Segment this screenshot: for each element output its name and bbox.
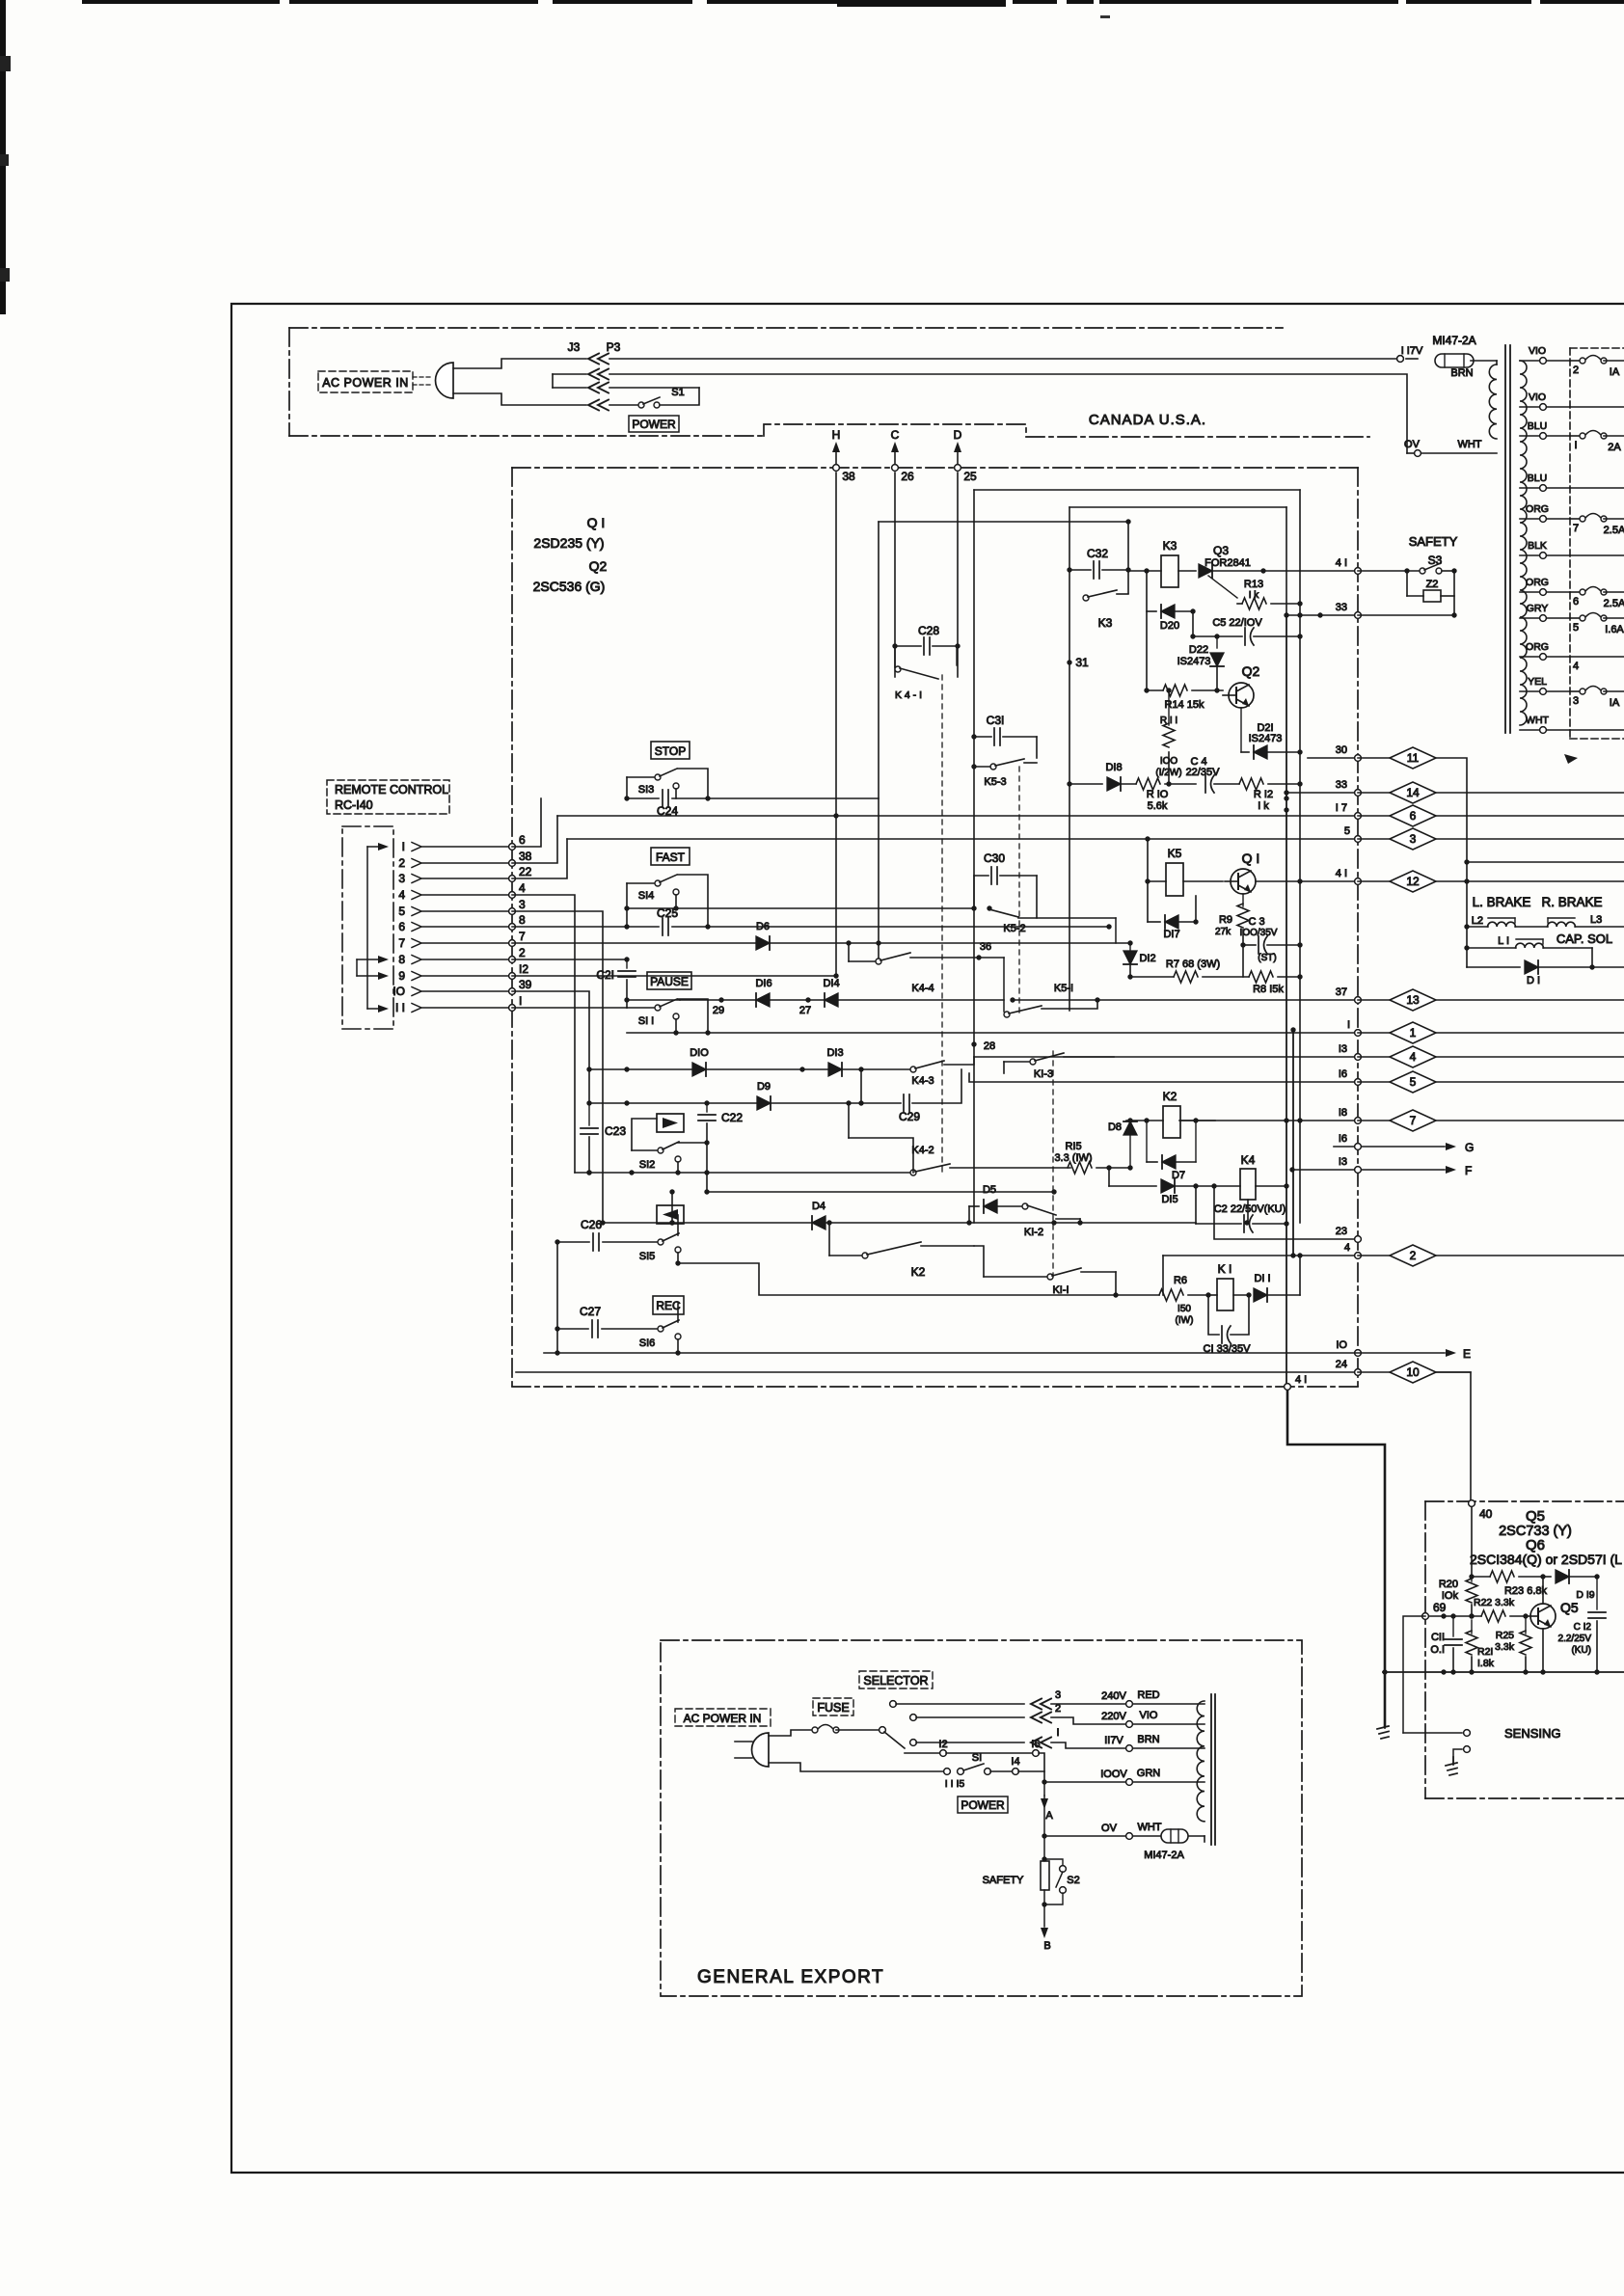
wire exit 4 row (1163, 1242, 1361, 1258)
svg-text:5: 5 (1573, 622, 1579, 634)
svg-text:R I2: R I2 (1254, 789, 1273, 800)
mech link K1 dashed (1052, 1051, 1054, 1277)
svg-text:REC: REC (656, 1299, 681, 1312)
wire 28 node (971, 1040, 995, 1052)
REMOTE CONTROL label box (327, 780, 449, 814)
wire row2 long (609, 374, 1407, 453)
svg-text:IA: IA (1610, 697, 1620, 709)
svg-text:K5-I: K5-I (1054, 983, 1073, 994)
transformer tap ORG 4 (1520, 641, 1624, 672)
inner box A border (974, 490, 1300, 1223)
transformer tap VIO (1520, 392, 1624, 410)
svg-text:F: F (1465, 1164, 1472, 1177)
capacitor C3 100/35V (1240, 916, 1303, 963)
wire bus 13-F (1289, 1156, 1472, 1177)
wire sensing feed (1403, 1616, 1462, 1733)
capacitor C23 (581, 1103, 626, 1175)
resistor R11 100 1/2W (1155, 688, 1181, 786)
Q5 unit dash-dot box (1425, 1501, 1624, 1798)
wire bus 37 exit (1010, 986, 1361, 1003)
svg-text:2SD235 (Y): 2SD235 (Y) (533, 535, 604, 551)
inductor L1 (1467, 935, 1592, 967)
node H arrow (832, 428, 841, 468)
svg-text:2: 2 (1410, 1249, 1417, 1262)
node 40 (1469, 1500, 1493, 1521)
connector chevrons row3 (588, 383, 609, 393)
svg-text:C26: C26 (581, 1218, 602, 1231)
svg-text:ORG: ORG (1526, 641, 1549, 653)
relay coil K5 (1145, 847, 1223, 896)
svg-text:(IW): (IW) (1176, 1315, 1194, 1326)
svg-text:1: 1 (1410, 1026, 1417, 1040)
svg-text:CII: CII (1431, 1632, 1445, 1643)
switch S12 (632, 1119, 707, 1173)
schematic outer border frame (231, 304, 1624, 2173)
svg-text:D5: D5 (983, 1184, 996, 1196)
svg-text:C30: C30 (984, 851, 1005, 865)
svg-text:SI3: SI3 (638, 784, 655, 796)
transformer T2 winding (1197, 1701, 1204, 1842)
svg-text:IS2473: IS2473 (1177, 656, 1211, 667)
label AC POWER IN (export) (675, 1709, 771, 1726)
wire col 697 (669, 1189, 674, 1225)
svg-text:12: 12 (1406, 875, 1420, 888)
svg-text:6: 6 (398, 920, 405, 933)
wire pin10 drop (512, 991, 592, 1106)
remote pin 5 wire (398, 898, 526, 918)
connector diamond 5 (1358, 1071, 1624, 1093)
svg-text:I6: I6 (1031, 1739, 1040, 1750)
connector diamond 2 (1358, 1245, 1624, 1266)
svg-text:K4-3: K4-3 (911, 1075, 934, 1087)
thyristor Q3 FOR2841 (1199, 544, 1300, 598)
svg-text:AC POWER IN: AC POWER IN (684, 1712, 762, 1725)
svg-text:3: 3 (398, 872, 405, 885)
transformer tap BLK (1520, 540, 1624, 558)
svg-text:2.5A: 2.5A (1604, 525, 1624, 536)
diode D17 (1148, 896, 1199, 940)
svg-text:MI47-2A: MI47-2A (1144, 1850, 1184, 1861)
svg-text:30: 30 (1336, 744, 1347, 756)
svg-text:FUSE: FUSE (817, 1701, 849, 1715)
diode D1 (1467, 960, 1624, 986)
svg-text:R23 6.8k: R23 6.8k (1504, 1585, 1548, 1597)
svg-text:29: 29 (713, 1005, 724, 1016)
svg-text:STOP: STOP (655, 744, 686, 758)
wire row 1109 (589, 1067, 911, 1071)
capacitor C12 2.2/25V (1558, 1577, 1606, 1672)
svg-text:I8: I8 (1339, 1107, 1347, 1119)
svg-text:K2: K2 (911, 1265, 926, 1279)
diode D20 (1147, 605, 1193, 632)
connector diamond 11 (1358, 747, 1436, 769)
wire H column (833, 473, 838, 979)
svg-text:C27: C27 (580, 1305, 601, 1318)
svg-text:I2: I2 (938, 1739, 947, 1750)
diode D11 (1254, 1256, 1300, 1302)
svg-text:2SCI384(Q) or 2SD57I (L: 2SCI384(Q) or 2SD57I (L (1470, 1552, 1622, 1567)
svg-text:E: E (1463, 1347, 1471, 1361)
svg-text:24: 24 (1336, 1359, 1347, 1370)
svg-text:Q2: Q2 (1242, 663, 1260, 679)
svg-text:C29: C29 (899, 1110, 920, 1123)
svg-text:22/35V: 22/35V (1186, 767, 1221, 778)
label FAST box (651, 848, 690, 865)
transformer tap ORG 7 (1520, 503, 1624, 536)
wire 41 exit top (1300, 557, 1361, 574)
label SELECTOR box (859, 1671, 933, 1688)
diode D6 (756, 921, 770, 950)
svg-text:B: B (1043, 1940, 1050, 1952)
wire bus 30 exit (1308, 744, 1361, 761)
wire exit 23 (1214, 1186, 1361, 1242)
svg-text:SI4: SI4 (638, 890, 655, 902)
label GENERAL EXPORT (697, 1967, 884, 1987)
switch S1 (power, top) (609, 387, 699, 408)
svg-text:DI4: DI4 (823, 978, 839, 989)
svg-text:I4: I4 (1011, 1756, 1019, 1768)
node D arrow (954, 428, 962, 468)
capacitor C29 (899, 1069, 961, 1123)
wire row 100V (1044, 1768, 1204, 1785)
svg-text:D I9: D I9 (1576, 1589, 1594, 1601)
svg-text:Q3: Q3 (1213, 544, 1229, 557)
svg-text:I3: I3 (1339, 1043, 1347, 1055)
diode D10 (690, 1047, 709, 1076)
wire K4-2 feed (846, 1100, 913, 1173)
wire pin9 to H col (512, 975, 836, 977)
wire row 1236 (704, 1189, 1056, 1194)
capacitor C25 (624, 906, 710, 935)
connector J3-P3 labels (568, 340, 621, 354)
svg-text:K4-2: K4-2 (911, 1145, 934, 1156)
svg-text:11: 11 (1407, 751, 1420, 765)
connector chevrons row2 (588, 369, 609, 380)
wire col 733b (706, 1143, 708, 1192)
remote pin 9 wire (398, 962, 528, 983)
svg-text:I k: I k (1258, 800, 1269, 812)
label R.BRAKE (1541, 895, 1602, 909)
connector diamond 14 (1358, 782, 1624, 803)
switch S16 (639, 1304, 681, 1353)
remote pin 1 wire (402, 833, 526, 853)
svg-text:RED: RED (1137, 1689, 1159, 1701)
resistor R22 3.3k (1429, 1597, 1529, 1622)
svg-text:OV: OV (1404, 439, 1421, 450)
wire bus 33 exit (1284, 779, 1361, 796)
wire bus 1 exit (627, 1019, 1361, 1036)
svg-text:K3: K3 (1163, 539, 1177, 553)
selector row 117V (910, 1727, 1204, 1751)
svg-text:D22: D22 (1189, 644, 1208, 656)
wire pin8 to pause (512, 957, 630, 961)
switch S1 (export) (769, 1752, 1047, 1790)
svg-text:POWER: POWER (961, 1798, 1005, 1812)
node 26 (892, 465, 914, 483)
svg-text:37: 37 (1336, 986, 1347, 998)
transformer tap VIO 2 (1520, 345, 1624, 378)
svg-text:WHT: WHT (1457, 439, 1481, 450)
svg-text:7: 7 (398, 936, 405, 950)
label SAFETY top (1409, 534, 1458, 549)
svg-text:13: 13 (1406, 993, 1420, 1007)
svg-text:ORG: ORG (1526, 503, 1549, 515)
svg-text:D4: D4 (812, 1201, 826, 1212)
transformer core (1505, 345, 1510, 733)
relay contact K4-3 (910, 1057, 974, 1087)
resistor R12 1k (1239, 778, 1303, 812)
svg-text:P3: P3 (607, 340, 621, 354)
svg-text:IOO: IOO (1160, 756, 1178, 767)
connector diamond 7 (1358, 1110, 1624, 1131)
remote control internal link A (367, 843, 389, 1013)
svg-text:G: G (1465, 1141, 1474, 1154)
wire bus 18 exit (1179, 1107, 1361, 1123)
resistor R10 5.6k (1121, 778, 1196, 812)
capacitor C2 22/50V (1193, 1183, 1288, 1232)
svg-text:L I: L I (1498, 935, 1509, 947)
svg-text:II7V: II7V (1104, 1735, 1123, 1746)
switch S15 (639, 1215, 681, 1263)
capacitor C22 (698, 1103, 743, 1146)
svg-text:KI-I: KI-I (1052, 1284, 1069, 1296)
svg-text:FOR2841: FOR2841 (1204, 557, 1251, 569)
svg-text:O.I: O.I (1430, 1644, 1445, 1656)
svg-text:Z2: Z2 (1426, 579, 1439, 590)
svg-text:CANADA U.S.A.: CANADA U.S.A. (1089, 412, 1206, 428)
transformer T1 secondary winding (1520, 361, 1527, 725)
connector chevrons row4 (588, 400, 609, 411)
wire fast mid row (624, 905, 974, 910)
wire pin3 riser to 5-row (512, 839, 567, 878)
wire C column (894, 473, 896, 677)
remote pin 10 wire (392, 978, 531, 998)
svg-text:AC POWER IN: AC POWER IN (322, 376, 409, 390)
svg-text:L2: L2 (1472, 915, 1483, 927)
svg-text:H: H (832, 428, 841, 442)
fuse F1 (export) (769, 1725, 879, 1737)
relay contact K1-3 (1004, 1053, 1114, 1080)
svg-text:Q5: Q5 (1526, 1508, 1545, 1525)
svg-text:CAP. SOL: CAP. SOL (1556, 932, 1612, 946)
wire C5 left col (1190, 608, 1195, 636)
relay contact K3 (1083, 590, 1128, 630)
svg-text:R22 3.3k: R22 3.3k (1474, 1597, 1515, 1608)
svg-text:SI I: SI I (638, 1015, 655, 1027)
wire node-31 mark (1067, 656, 1089, 669)
relay coil K3 (1128, 539, 1196, 587)
connector diamond 1 (1358, 1022, 1624, 1043)
selector row 220V (910, 1703, 1204, 1727)
wire bus x1341 (1290, 1027, 1295, 1257)
svg-text:39: 39 (519, 978, 532, 991)
transformer tap WHT (1520, 715, 1624, 733)
label REC box (653, 1296, 684, 1314)
capacitor C1 33/35V (1204, 1295, 1252, 1355)
wire pin4 drop (512, 895, 575, 1173)
node 25 (955, 465, 977, 483)
svg-text:IOO/35V: IOO/35V (1240, 928, 1278, 938)
remote pin 11 wire (395, 994, 522, 1014)
connector diamond 10 (1358, 1362, 1471, 1383)
svg-text:C2I: C2I (596, 968, 614, 982)
relay contact K4-4 (846, 940, 1004, 994)
wire fast row right (708, 924, 1112, 929)
svg-text:GRY: GRY (1527, 603, 1549, 614)
wire stop row right (708, 522, 879, 961)
svg-text:220V: 220V (1101, 1711, 1126, 1722)
svg-text:K5-2: K5-2 (1003, 923, 1025, 934)
svg-text:DI3: DI3 (826, 1047, 843, 1059)
wire row 1144 (589, 1100, 901, 1105)
svg-text:4 I: 4 I (1336, 557, 1347, 569)
wire K3 column (1127, 522, 1129, 593)
remote pin 7 wire (398, 930, 526, 950)
svg-text:3: 3 (1410, 832, 1417, 846)
svg-text:2: 2 (398, 856, 405, 870)
remote pin 8 wire (398, 946, 526, 966)
fuse panel dashed box (1570, 348, 1624, 739)
svg-text:33: 33 (1336, 602, 1347, 613)
svg-text:R9: R9 (1219, 914, 1232, 926)
resistor R15 3.3 1W (1054, 1141, 1132, 1174)
transformer tap BLU (1520, 473, 1624, 491)
resistor R20 10k (1439, 1577, 1477, 1619)
svg-text:6: 6 (1410, 809, 1417, 823)
svg-text:L3: L3 (1590, 914, 1602, 926)
svg-text:7: 7 (1410, 1114, 1417, 1127)
transformer tap ORG 6 (1520, 577, 1624, 609)
svg-text:KI-2: KI-2 (1024, 1227, 1043, 1238)
wire row 0V WHT (1042, 1822, 1204, 1861)
svg-text:5: 5 (1410, 1075, 1417, 1089)
svg-text:8: 8 (398, 953, 405, 966)
label L.BRAKE (1473, 895, 1531, 909)
svg-text:C28: C28 (918, 624, 939, 637)
diode D7 (1144, 1118, 1198, 1181)
selector contacts 12/16 (905, 1739, 1044, 1782)
wire Q3 left leg (1144, 568, 1149, 690)
svg-text:38: 38 (842, 470, 855, 483)
zener Z2 (1407, 571, 1457, 618)
svg-text:YEL: YEL (1528, 676, 1547, 688)
wire row 1310 (675, 1260, 1118, 1297)
svg-text:VIO: VIO (1529, 345, 1546, 357)
transistor Q1 (1225, 851, 1259, 894)
wire 117V line (row1) to transformer fuse (609, 356, 1403, 363)
svg-text:9: 9 (398, 969, 405, 983)
switch S14 (627, 875, 708, 927)
svg-text:7: 7 (1573, 523, 1579, 534)
resistor SAFETY (export) (983, 1836, 1049, 1904)
svg-text:5.6k: 5.6k (1148, 800, 1168, 812)
svg-text:R I I: R I I (1160, 716, 1177, 726)
svg-text:GRN: GRN (1137, 1768, 1161, 1779)
svg-text:K4-4: K4-4 (911, 983, 934, 994)
svg-text:FAST: FAST (656, 851, 686, 864)
svg-text:S2: S2 (1067, 1875, 1079, 1886)
svg-text:Q I: Q I (587, 515, 606, 530)
svg-text:3: 3 (1573, 695, 1579, 707)
wire bus 41 exit mid (1256, 868, 1361, 884)
svg-text:5: 5 (1344, 825, 1350, 837)
resistor R7 68 3W (1127, 959, 1249, 983)
svg-text:SELECTOR: SELECTOR (863, 1674, 928, 1688)
svg-text:4: 4 (398, 888, 405, 902)
svg-text:240V: 240V (1101, 1690, 1126, 1702)
svg-text:C2 22/50V(KU): C2 22/50V(KU) (1214, 1203, 1286, 1215)
svg-text:DI5: DI5 (1161, 1194, 1177, 1205)
diode D8 (1108, 1118, 1137, 1168)
AC plug P2 (735, 1733, 769, 1767)
transformer T2 core (1211, 1694, 1215, 1845)
label REW box (657, 1205, 684, 1224)
svg-text:2: 2 (1573, 365, 1579, 376)
svg-text:I2: I2 (519, 962, 528, 976)
wire pin11 to S11 (512, 1007, 627, 1009)
svg-text:D I: D I (1527, 975, 1540, 986)
capacitor C21 (596, 959, 636, 1000)
label node 27 (799, 1005, 811, 1016)
svg-text:C32: C32 (1087, 547, 1108, 560)
label CANADA U.S.A. (1089, 412, 1206, 428)
svg-text:K3: K3 (1098, 616, 1113, 630)
remote pin 4 wire (398, 881, 526, 902)
remote pin 3 wire (398, 865, 531, 885)
wire D13 drop (860, 1069, 862, 1103)
svg-text:22: 22 (519, 865, 532, 878)
relay contact K4-1 (895, 646, 957, 701)
wire heavy ground run (1287, 1387, 1389, 1739)
arrow B (1041, 1904, 1051, 1952)
transformer tap YEL 3 (1520, 676, 1624, 709)
svg-text:R25: R25 (1496, 1630, 1514, 1641)
svg-text:K 4 - I: K 4 - I (895, 689, 922, 701)
relay contact K2-lower (826, 1220, 974, 1279)
wire Q5 supply col (1469, 1507, 1474, 1580)
svg-text:R20: R20 (1439, 1579, 1458, 1590)
svg-text:C I2: C I2 (1574, 1622, 1592, 1633)
svg-text:IS2473: IS2473 (1249, 733, 1283, 744)
svg-text:IA: IA (1610, 366, 1620, 378)
svg-text:RC-I40: RC-I40 (335, 798, 373, 812)
svg-text:I50: I50 (1177, 1304, 1191, 1314)
svg-text:POWER: POWER (632, 418, 676, 431)
svg-text:5: 5 (398, 905, 405, 918)
svg-text:3.3k: 3.3k (1495, 1641, 1515, 1653)
connector diamond 3 (1358, 828, 1624, 850)
diode D14 (823, 978, 839, 1007)
svg-text:40: 40 (1479, 1507, 1493, 1521)
svg-text:2SC536 (G): 2SC536 (G) (533, 579, 606, 594)
resistor R21 1.8k (1466, 1620, 1495, 1672)
svg-text:I: I (1574, 440, 1577, 451)
svg-text:D7: D7 (1172, 1170, 1185, 1181)
wire pin2 riser to 17-row (512, 816, 557, 863)
svg-text:2A: 2A (1608, 442, 1621, 453)
svg-text:C22: C22 (721, 1111, 743, 1124)
svg-text:PAUSE: PAUSE (650, 975, 689, 988)
wire bus 16-G (1334, 1133, 1474, 1154)
inner box B border (1069, 507, 1286, 1011)
wire row 1216 (575, 1170, 910, 1175)
label PLAY box (657, 1114, 684, 1132)
svg-text:OV: OV (1101, 1823, 1118, 1834)
connector diamond 13 (1358, 989, 1624, 1011)
diode D12 (1123, 943, 1156, 977)
svg-text:SI: SI (972, 1752, 982, 1764)
svg-text:C3I: C3I (987, 714, 1005, 727)
